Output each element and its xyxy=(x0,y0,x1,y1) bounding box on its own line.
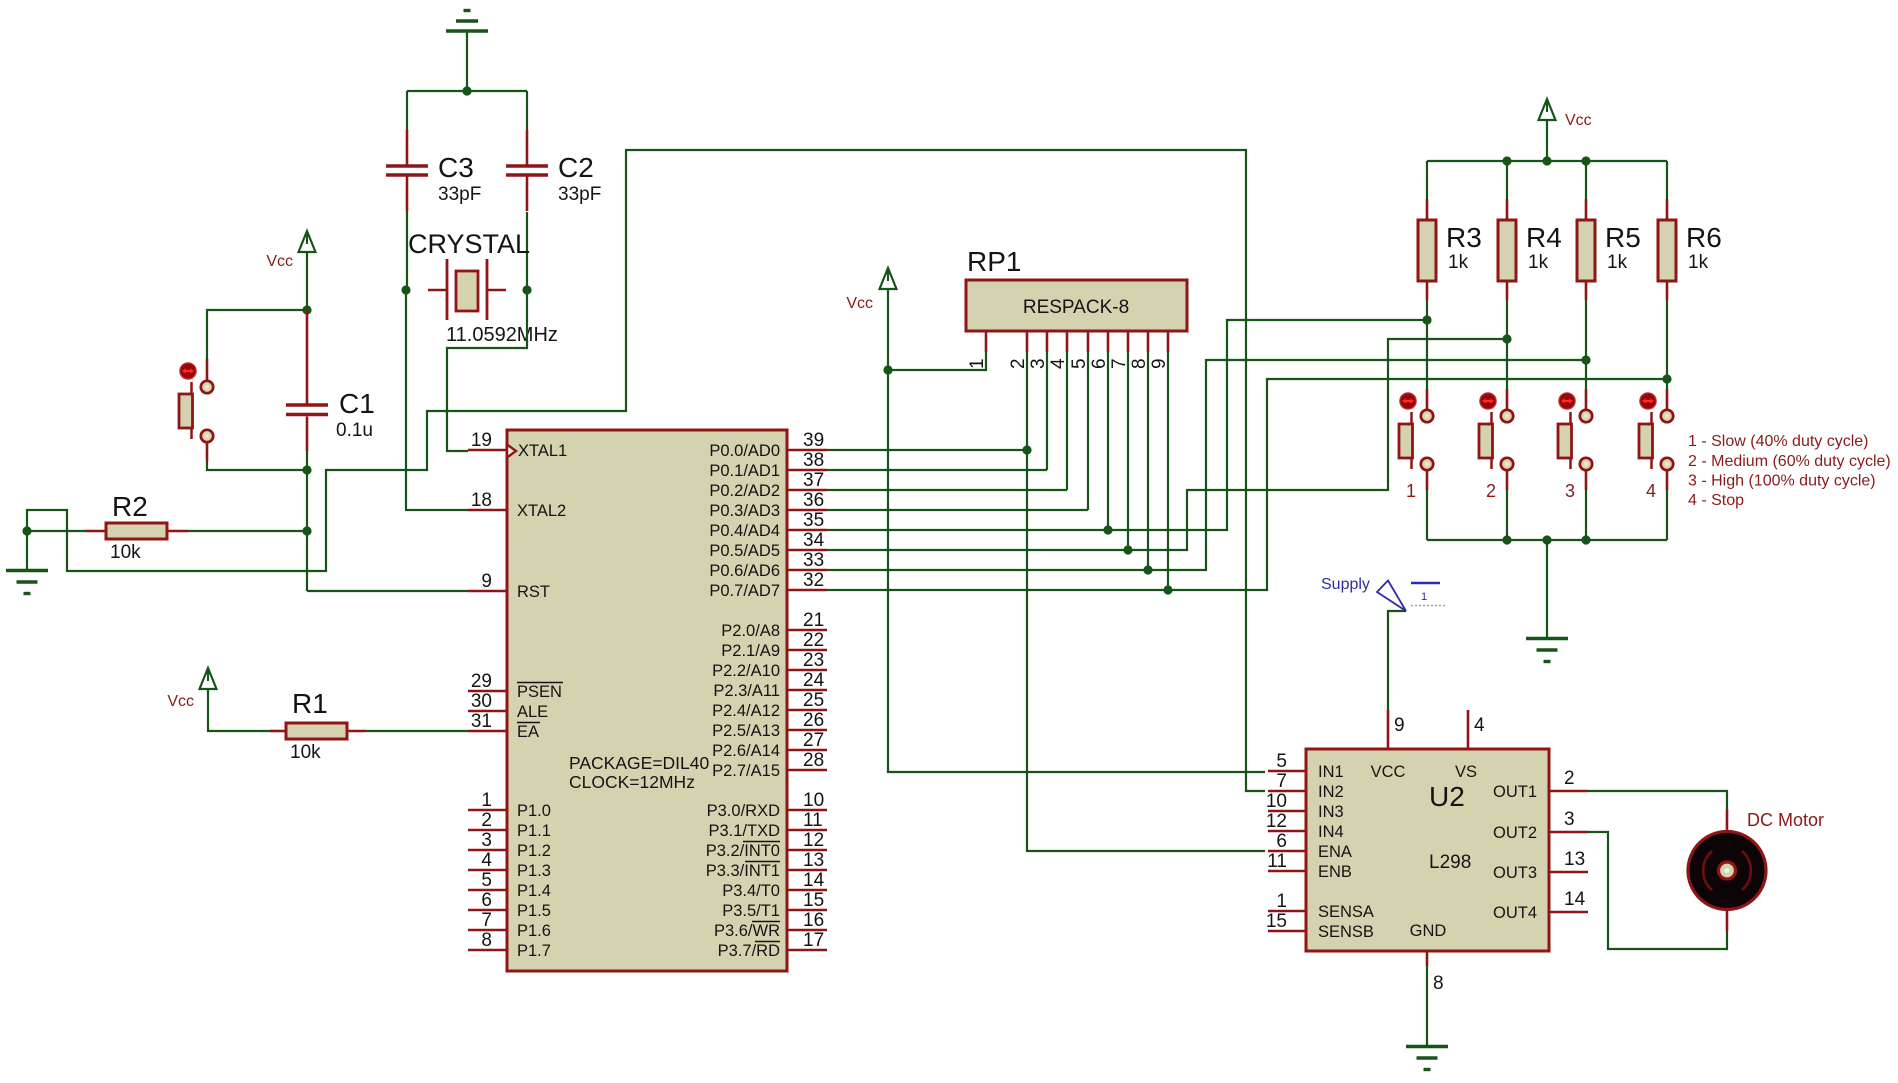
svg-text:IN1: IN1 xyxy=(1318,763,1344,781)
lead button 3 bottom xyxy=(1585,470,1588,491)
svg-text:8: 8 xyxy=(1129,358,1150,369)
svg-text:2: 2 xyxy=(1486,481,1496,501)
wire Vcc to L298 IN1 xyxy=(888,370,1265,772)
svg-text:27: 27 xyxy=(803,730,824,751)
wire ground to R2 xyxy=(27,530,85,532)
lead R3 bottom xyxy=(1426,281,1429,300)
svg-text:P2.4/A12: P2.4/A12 xyxy=(712,702,780,720)
wire R4 to node xyxy=(1506,300,1508,339)
RP1 pin 6 stub xyxy=(1107,331,1110,352)
svg-text:23: 23 xyxy=(803,650,824,671)
U1 pin 37 P0.2/AD2 xyxy=(709,470,827,500)
svg-text:CLOCK=12MHz: CLOCK=12MHz xyxy=(569,772,695,792)
svg-text:EA: EA xyxy=(517,723,539,741)
U1 pin 35 P0.4/AD4 xyxy=(709,510,827,540)
wire rail to R3 xyxy=(1426,161,1428,199)
node R4-button2 xyxy=(1502,334,1511,343)
svg-text:Vcc: Vcc xyxy=(167,693,194,710)
svg-text:8: 8 xyxy=(481,930,492,951)
resistor R3 1k xyxy=(1418,220,1482,281)
U1 pin 13 P3.3/INT1 xyxy=(706,850,827,880)
U1 pin 25 P2.4/A12 xyxy=(712,690,827,720)
svg-text:3 - High (100% duty cycle): 3 - High (100% duty cycle) xyxy=(1688,473,1876,490)
node bottom rail 2 xyxy=(1542,535,1551,544)
wire P0.6 to button 3 xyxy=(827,360,1586,570)
U1 pin 31 EA xyxy=(468,711,540,741)
Vcc power symbol (EA) xyxy=(167,668,216,710)
svg-text:P1.7: P1.7 xyxy=(517,942,551,960)
Supply logic-state switch xyxy=(1321,576,1447,611)
lead button 2 bottom xyxy=(1506,470,1509,491)
svg-text:Supply: Supply xyxy=(1321,576,1370,593)
node rail Vcc xyxy=(1542,156,1551,165)
svg-text:XTAL2: XTAL2 xyxy=(517,502,566,520)
wire button 4 to bottom rail xyxy=(1666,490,1668,540)
U1 pin 27 P2.6/A14 xyxy=(712,730,827,760)
svg-text:15: 15 xyxy=(1266,911,1287,932)
svg-text:C2: C2 xyxy=(558,152,594,183)
svg-text:14: 14 xyxy=(803,870,825,891)
svg-text:C1: C1 xyxy=(339,388,375,419)
svg-text:IN3: IN3 xyxy=(1318,803,1344,821)
wire rail to R4 xyxy=(1506,161,1508,199)
U1 pin 7 P1.6 xyxy=(468,910,551,940)
Vcc power symbol (RP1) xyxy=(846,268,896,312)
microcontroller U1 8051 DIL40 body xyxy=(507,430,787,971)
svg-text:U2: U2 xyxy=(1429,781,1465,812)
wire button 1 to bottom rail xyxy=(1426,490,1428,540)
lead R1 right xyxy=(347,730,366,733)
lead button 3 top xyxy=(1585,389,1588,411)
RP1 pin 7 stub xyxy=(1127,331,1130,352)
node crystal left xyxy=(401,285,410,294)
svg-text:IN2: IN2 xyxy=(1318,783,1344,801)
svg-text:10k: 10k xyxy=(290,742,321,763)
U2 pin 4 VS xyxy=(1455,710,1485,781)
svg-text:3: 3 xyxy=(1564,809,1575,830)
svg-text:6: 6 xyxy=(1276,831,1287,852)
U2 pin 6 ENA xyxy=(1268,831,1352,861)
U1 pin 36 P0.3/AD3 xyxy=(709,490,827,520)
wire RP1 pin4 to P0.2 xyxy=(1066,352,1068,490)
wire Vcc stem pull-ups xyxy=(1546,120,1548,161)
svg-text:P2.5/A13: P2.5/A13 xyxy=(712,722,780,740)
svg-text:5: 5 xyxy=(1069,358,1090,369)
svg-text:1k: 1k xyxy=(1448,252,1469,273)
U2 pin 7 IN2 xyxy=(1268,771,1344,801)
svg-text:P3.6/WR: P3.6/WR xyxy=(714,922,780,940)
node R2-RST xyxy=(302,526,311,535)
svg-text:ENB: ENB xyxy=(1318,863,1352,881)
node bottom rail 1 xyxy=(1502,535,1511,544)
svg-text:P1.3: P1.3 xyxy=(517,862,551,880)
svg-text:33: 33 xyxy=(803,550,824,571)
svg-text:P3.7/RD: P3.7/RD xyxy=(718,942,780,960)
svg-text:11.0592MHz: 11.0592MHz xyxy=(446,324,558,346)
svg-text:5: 5 xyxy=(1276,751,1287,772)
U1 pin 9 RST xyxy=(468,571,550,601)
svg-text:R4: R4 xyxy=(1526,222,1562,253)
U1 pin 24 P2.3/A11 xyxy=(713,670,827,700)
svg-text:9: 9 xyxy=(1394,715,1405,736)
svg-text:R6: R6 xyxy=(1686,222,1722,253)
node R2-ground xyxy=(22,526,31,535)
U1 pin 1 P1.0 xyxy=(468,790,551,820)
lead button 1 top xyxy=(1426,389,1429,411)
wire Vcc to RP1 pin 1 xyxy=(888,352,986,370)
svg-text:R3: R3 xyxy=(1446,222,1482,253)
wire P0.2 xyxy=(827,489,1067,491)
lead motor top xyxy=(1726,809,1729,831)
wire R1 to EA pin xyxy=(366,730,468,732)
svg-text:35: 35 xyxy=(803,510,824,531)
wire cap top rail xyxy=(407,90,527,92)
pin 19 XTAL1 clock-input marker xyxy=(507,445,516,458)
svg-text:1k: 1k xyxy=(1528,252,1549,273)
wire node to button 4 xyxy=(1666,379,1668,389)
resistor R1 10k xyxy=(286,688,347,763)
svg-text:7: 7 xyxy=(481,910,492,931)
U2 pin 9 VCC xyxy=(1371,710,1406,781)
node crystal right xyxy=(522,285,531,294)
svg-text:P0.0/AD0: P0.0/AD0 xyxy=(709,442,780,460)
svg-text:3: 3 xyxy=(1028,358,1049,369)
svg-text:3: 3 xyxy=(1565,481,1575,501)
push button 4 xyxy=(1639,393,1673,501)
svg-text:13: 13 xyxy=(803,850,824,871)
svg-text:IN4: IN4 xyxy=(1318,823,1344,841)
lead R2 left xyxy=(85,530,106,533)
node R3-button1 xyxy=(1422,315,1431,324)
lead R4 bottom xyxy=(1506,281,1509,300)
svg-text:33pF: 33pF xyxy=(438,184,481,205)
svg-text:22: 22 xyxy=(803,630,824,651)
svg-text:GND: GND xyxy=(1410,922,1447,940)
svg-text:4 - Stop: 4 - Stop xyxy=(1688,492,1744,509)
wire R5 to node xyxy=(1585,300,1587,360)
U2 pin 15 SENSB xyxy=(1266,911,1374,941)
svg-text:1: 1 xyxy=(967,358,988,369)
svg-text:1: 1 xyxy=(1276,891,1287,912)
svg-text:P2.3/A11: P2.3/A11 xyxy=(713,682,780,700)
svg-text:31: 31 xyxy=(471,711,492,732)
capacitor C1 0.1u xyxy=(286,310,375,451)
svg-text:4: 4 xyxy=(1646,481,1656,501)
wire RP1 pin2 / P0.0 to ENA xyxy=(1027,352,1265,851)
wire OUT1 to motor xyxy=(1588,791,1727,809)
svg-text:Vcc: Vcc xyxy=(1565,112,1592,129)
svg-text:25: 25 xyxy=(803,690,824,711)
lead reset button top xyxy=(206,359,209,382)
svg-text:34: 34 xyxy=(803,530,825,551)
svg-text:4: 4 xyxy=(1048,358,1069,369)
Vcc power symbol (reset) xyxy=(266,231,315,270)
svg-text:6: 6 xyxy=(481,890,492,911)
resistor R4 1k xyxy=(1498,220,1562,281)
svg-text:13: 13 xyxy=(1564,849,1585,870)
lead button 4 bottom xyxy=(1666,470,1669,491)
U1 pin 11 P3.1/TXD xyxy=(708,810,827,840)
RP1 pin 9 stub xyxy=(1167,331,1170,352)
U1 pin 23 P2.2/A10 xyxy=(712,650,827,680)
U1 pin 17 P3.7/RD xyxy=(718,930,827,960)
lead R2 right xyxy=(167,530,188,533)
capacitor C2 xyxy=(506,130,601,211)
wire RP1 pin7 to P0.5 xyxy=(1127,352,1129,550)
svg-text:11: 11 xyxy=(803,810,823,831)
RP1 pin 1 stub xyxy=(985,331,988,352)
wire button bottom rail xyxy=(1427,539,1667,541)
svg-text:2: 2 xyxy=(1564,768,1575,789)
svg-text:RST: RST xyxy=(517,583,550,601)
push button 3 xyxy=(1558,393,1592,501)
svg-text:P2.7/A15: P2.7/A15 xyxy=(712,762,780,780)
RP1 pin 2 stub xyxy=(1026,331,1029,352)
lead R4 top xyxy=(1506,199,1509,220)
svg-text:36: 36 xyxy=(803,490,824,511)
svg-text:29: 29 xyxy=(471,671,492,692)
svg-text:39: 39 xyxy=(803,430,824,451)
U1 pin 10 P3.0/RXD xyxy=(707,790,827,820)
svg-text:Vcc: Vcc xyxy=(846,295,873,312)
U2 pin 10 IN3 xyxy=(1266,791,1344,821)
wire P0.4 to button 1 xyxy=(827,320,1427,530)
U1 pin 2 P1.1 xyxy=(468,810,551,840)
lead R5 top xyxy=(1585,199,1588,220)
U1 pin 4 P1.3 xyxy=(468,850,551,880)
U2 pin 2 OUT1 xyxy=(1493,768,1588,801)
svg-text:15: 15 xyxy=(803,890,824,911)
node bottom rail 3 xyxy=(1581,535,1590,544)
svg-text:PACKAGE=DIL40: PACKAGE=DIL40 xyxy=(569,753,709,773)
wire R6 to node xyxy=(1666,300,1668,379)
svg-text:P0.7/AD7: P0.7/AD7 xyxy=(709,582,780,600)
U1 pin 32 P0.7/AD7 xyxy=(709,570,827,600)
RP1 pin 8 stub xyxy=(1147,331,1150,352)
ground (L298) xyxy=(1406,1047,1448,1070)
ground (top, inverted) xyxy=(446,11,488,32)
annotation duty cycle legend xyxy=(1688,433,1891,509)
U1 pin 8 P1.7 xyxy=(468,930,551,960)
U2 pin 13 OUT3 xyxy=(1493,849,1588,882)
svg-text:L298: L298 xyxy=(1429,852,1471,873)
node P0.6-RP1pin8 xyxy=(1143,565,1152,574)
Vcc power symbol (pull-ups) xyxy=(1539,99,1592,129)
lead R5 bottom xyxy=(1585,281,1588,300)
lead button 1 bottom xyxy=(1426,470,1429,491)
resistor R5 1k xyxy=(1577,220,1641,281)
wire P0.7 to button 4 xyxy=(827,379,1667,590)
svg-text:9: 9 xyxy=(481,571,492,592)
svg-text:OUT3: OUT3 xyxy=(1493,864,1537,882)
svg-text:2: 2 xyxy=(481,810,492,831)
svg-text:ENA: ENA xyxy=(1318,843,1352,861)
wire to RST pin xyxy=(307,590,468,592)
wire C3 top xyxy=(406,91,408,131)
ground (left) xyxy=(6,571,48,594)
U1 pin 26 P2.5/A13 xyxy=(712,710,827,740)
svg-text:R2: R2 xyxy=(112,491,148,522)
svg-text:0.1u: 0.1u xyxy=(336,420,373,441)
svg-text:P2.0/A8: P2.0/A8 xyxy=(721,622,780,640)
U2 pin 1 SENSA xyxy=(1268,891,1374,921)
svg-text:VCC: VCC xyxy=(1371,763,1406,781)
svg-text:P2.6/A14: P2.6/A14 xyxy=(712,742,780,760)
svg-text:5: 5 xyxy=(481,870,492,891)
svg-text:RP1: RP1 xyxy=(967,246,1021,277)
wire button 2 to bottom rail xyxy=(1506,490,1508,540)
wire P0.3 xyxy=(827,509,1088,511)
svg-text:2 - Medium (60% duty cycle): 2 - Medium (60% duty cycle) xyxy=(1688,453,1891,470)
U1 pin 29 PSEN xyxy=(468,671,563,701)
node P0.0-RP1pin2 xyxy=(1022,445,1031,454)
wire OUT2 to motor xyxy=(1588,832,1727,949)
wire R2 to RST node xyxy=(188,530,307,532)
node rail R5 xyxy=(1581,156,1590,165)
svg-text:1: 1 xyxy=(481,790,492,811)
wire node to button 2 xyxy=(1506,339,1508,389)
node P0.7-RP1pin9 xyxy=(1163,585,1172,594)
svg-text:21: 21 xyxy=(803,610,824,631)
U2 pin 3 OUT2 xyxy=(1493,809,1588,842)
U1 pin 3 P1.2 xyxy=(468,830,551,860)
wire reset button bottom to RST node xyxy=(207,461,307,470)
wire pull-up top rail xyxy=(1427,160,1667,162)
U1 pin 19 XTAL1 xyxy=(468,430,567,460)
svg-text:14: 14 xyxy=(1564,889,1586,910)
U1 pin 21 P2.0/A8 xyxy=(721,610,827,640)
svg-text:OUT1: OUT1 xyxy=(1493,783,1537,801)
wire RP1 pin8 to P0.6 xyxy=(1147,352,1149,570)
RP1 pin 4 stub xyxy=(1066,331,1069,352)
svg-text:1k: 1k xyxy=(1688,252,1709,273)
svg-text:P1.2: P1.2 xyxy=(517,842,551,860)
node P0.4-RP1pin6 xyxy=(1103,525,1112,534)
lead R6 top xyxy=(1666,199,1669,220)
lead button 4 top xyxy=(1666,389,1669,411)
svg-text:P0.4/AD4: P0.4/AD4 xyxy=(709,522,780,540)
U1 pin 16 P3.6/WR xyxy=(714,910,827,940)
wire R3 to node xyxy=(1426,300,1428,320)
node Vcc-RP1 xyxy=(883,365,892,374)
svg-text:26: 26 xyxy=(803,710,824,731)
crystal X1 CRYSTAL 11.0592MHz xyxy=(408,229,558,346)
svg-text:3: 3 xyxy=(481,830,492,851)
U1 pin 5 P1.4 xyxy=(468,870,551,900)
resistor pack RP1 RESPACK-8 xyxy=(966,246,1187,331)
svg-text:P1.6: P1.6 xyxy=(517,922,551,940)
U1 pin 12 P3.2/INT0 xyxy=(706,830,827,860)
svg-text:30: 30 xyxy=(471,691,492,712)
wire crystal left to XTAL2 xyxy=(406,290,468,510)
motor driver U2 L298 body xyxy=(1306,749,1549,951)
svg-text:P3.2/INT0: P3.2/INT0 xyxy=(706,842,780,860)
resistor R2 10k xyxy=(106,491,167,563)
svg-text:12: 12 xyxy=(803,830,824,851)
svg-text:P3.0/RXD: P3.0/RXD xyxy=(707,802,780,820)
svg-text:DC Motor: DC Motor xyxy=(1747,810,1824,830)
wire to ground xyxy=(26,531,28,569)
wire P0.5 to button 2 xyxy=(827,339,1507,550)
svg-text:1 - Slow (40% duty cycle): 1 - Slow (40% duty cycle) xyxy=(1688,433,1869,450)
wire rail to R5 xyxy=(1585,161,1587,199)
U1 pin 6 P1.5 xyxy=(468,890,551,920)
svg-text:4: 4 xyxy=(481,850,492,871)
wire ground rail to L298 IN2 xyxy=(27,150,1265,791)
svg-text:Vcc: Vcc xyxy=(266,253,293,270)
U1 pin 22 P2.1/A9 xyxy=(721,630,827,660)
lead R1 left xyxy=(270,730,286,733)
svg-text:1k: 1k xyxy=(1607,252,1628,273)
svg-text:VS: VS xyxy=(1455,763,1477,781)
svg-text:P1.4: P1.4 xyxy=(517,882,551,900)
svg-text:P0.6/AD6: P0.6/AD6 xyxy=(709,562,780,580)
svg-text:R1: R1 xyxy=(292,688,328,719)
wire Vcc stem RP1 xyxy=(887,289,889,370)
svg-text:12: 12 xyxy=(1266,811,1287,832)
svg-text:2: 2 xyxy=(1008,358,1029,369)
svg-text:4: 4 xyxy=(1474,715,1485,736)
svg-text:P2.2/A10: P2.2/A10 xyxy=(712,662,780,680)
U2 pin 5 IN1 xyxy=(1268,751,1344,781)
wire ground stem to cap rail xyxy=(466,31,468,91)
wire supply to L298 VCC xyxy=(1388,611,1406,710)
svg-text:38: 38 xyxy=(803,450,824,471)
svg-text:P2.1/A9: P2.1/A9 xyxy=(721,642,780,660)
svg-text:28: 28 xyxy=(803,750,824,771)
wire RP1 pin9 to P0.7 xyxy=(1167,352,1169,590)
svg-text:C3: C3 xyxy=(438,152,474,183)
wire node to button 3 xyxy=(1585,360,1587,389)
wire C2 bottom to crystal right xyxy=(526,212,528,290)
svg-text:10: 10 xyxy=(1266,791,1287,812)
svg-text:P3.3/INT1: P3.3/INT1 xyxy=(706,862,780,880)
node RST top xyxy=(302,465,311,474)
svg-text:P0.5/AD5: P0.5/AD5 xyxy=(709,542,780,560)
wire C1 bottom through RST node xyxy=(306,451,308,591)
svg-text:XTAL1: XTAL1 xyxy=(518,442,567,460)
svg-text:17: 17 xyxy=(803,930,824,951)
node R5-button3 xyxy=(1581,355,1590,364)
svg-text:7: 7 xyxy=(1276,771,1287,792)
svg-text:11: 11 xyxy=(1267,851,1287,872)
wire Vcc to C1 top node xyxy=(306,252,308,310)
svg-text:P3.5/T1: P3.5/T1 xyxy=(722,902,780,920)
wire RP1 pin5 to P0.3 xyxy=(1087,352,1089,510)
svg-text:37: 37 xyxy=(803,470,824,491)
svg-text:6: 6 xyxy=(1089,358,1110,369)
U2 pin 14 OUT4 xyxy=(1493,889,1588,922)
wire GND pin to ground xyxy=(1426,966,1428,1046)
U1 pin 15 P3.5/T1 xyxy=(722,890,827,920)
svg-text:1: 1 xyxy=(1421,591,1427,603)
U1 pin 28 P2.7/A15 xyxy=(712,750,827,780)
svg-text:32: 32 xyxy=(803,570,824,591)
U1 pin 14 P3.4/T0 xyxy=(722,870,827,900)
RP1 pin 5 stub xyxy=(1087,331,1090,352)
svg-text:P3.1/TXD: P3.1/TXD xyxy=(708,822,780,840)
svg-text:P0.1/AD1: P0.1/AD1 xyxy=(709,462,780,480)
U2 labels xyxy=(1429,781,1471,873)
svg-text:OUT2: OUT2 xyxy=(1493,824,1537,842)
U2 pin 11 ENB xyxy=(1267,851,1352,881)
wire P0.1 xyxy=(827,469,1047,471)
svg-text:SENSB: SENSB xyxy=(1318,923,1374,941)
svg-text:P0.3/AD3: P0.3/AD3 xyxy=(709,502,780,520)
svg-text:16: 16 xyxy=(803,910,824,931)
lead button 2 top xyxy=(1506,389,1509,411)
wire button 3 to bottom rail xyxy=(1585,490,1587,540)
